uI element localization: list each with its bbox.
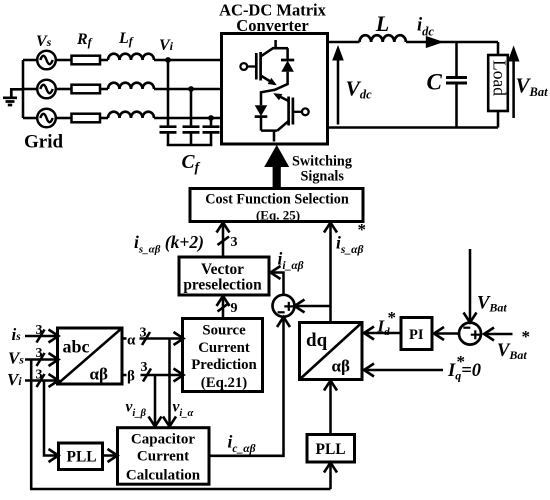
- wire bottom stub: [273, 131, 276, 142]
- switching signals arrow: [264, 145, 289, 188]
- svg-text:*: *: [388, 308, 397, 327]
- load box: [488, 55, 508, 111]
- wire converter to L: [328, 41, 360, 44]
- svg-text:(Eq.21): (Eq.21): [201, 375, 248, 391]
- wire grid bus: [22, 60, 25, 118]
- svg-text:Vs: Vs: [36, 33, 52, 50]
- svg-text:*: *: [358, 220, 367, 239]
- wire bus to source B: [23, 88, 37, 91]
- AC-DC matrix converter box: [222, 34, 328, 145]
- wire vector to cost: [217, 223, 230, 258]
- capacitor Cf phase A: [160, 60, 177, 145]
- wire Cf common bus: [167, 144, 213, 147]
- wire V_s down branch: [30, 360, 33, 490]
- node phase C junction: [208, 115, 214, 121]
- svg-text:ii_αβ: ii_αβ: [278, 249, 304, 273]
- resistor Rf phase A: [72, 56, 101, 65]
- wire bus to source C: [23, 117, 37, 120]
- wire input V_i: [25, 374, 59, 387]
- wire PLL to capacitor block: [103, 449, 118, 462]
- label Cost Function Selection (Eq. 25): [205, 192, 349, 223]
- wire v_i_alpha branch: [163, 339, 176, 427]
- source current prediction box: [183, 319, 263, 392]
- svg-text:β: β: [127, 369, 135, 385]
- svg-text:3: 3: [36, 346, 43, 361]
- IGBT Q2 gate terminal: [293, 108, 309, 115]
- ground: [3, 89, 23, 105]
- wire L to load node: [406, 41, 498, 44]
- svg-text:Vdc: Vdc: [346, 77, 373, 102]
- inductor Lf phase B: [108, 83, 154, 89]
- IGBT Q2: [276, 95, 293, 131]
- svg-text:is: is: [12, 325, 22, 344]
- wire Rf to Lf phase B: [100, 88, 108, 91]
- svg-text:Source: Source: [202, 323, 246, 339]
- svg-text:L: L: [375, 11, 389, 36]
- label Source Current Prediction: [191, 323, 256, 392]
- wire bus up to PLL2: [324, 463, 337, 490]
- svg-text:3: 3: [140, 326, 147, 341]
- svg-text:VBat: VBat: [516, 74, 549, 100]
- svg-text:vi_β: vi_β: [126, 399, 147, 420]
- wire I_q ref to dq: [364, 364, 443, 377]
- svg-text:is_αβ (k+2): is_αβ (k+2): [134, 232, 204, 256]
- svg-text:Converter: Converter: [236, 16, 308, 35]
- svg-text:3: 3: [231, 235, 238, 250]
- wire common emitter link: [261, 90, 275, 106]
- svg-text:Lf: Lf: [118, 30, 134, 48]
- capacitor current calculation box: [118, 428, 210, 485]
- wire Lf to converter phase A: [154, 59, 222, 62]
- svg-text:(Eq. 25): (Eq. 25): [256, 208, 300, 223]
- capacitor Cf phase C: [203, 118, 220, 145]
- node Vi phase A junction: [165, 57, 171, 63]
- AC source Vs phase A: [37, 51, 56, 70]
- IGBT Q1 emitter arrow: [268, 78, 279, 89]
- wire bus to source A: [23, 59, 37, 62]
- svg-text:Capacitor: Capacitor: [131, 432, 195, 448]
- inductor Lf phase A: [108, 54, 154, 60]
- cost function selection box: [190, 189, 363, 222]
- svg-text:Current: Current: [137, 449, 189, 465]
- summing node S2: [459, 323, 481, 345]
- svg-text:3: 3: [141, 360, 148, 375]
- svg-text:dq: dq: [306, 330, 328, 351]
- svg-text:Vector: Vector: [201, 261, 244, 278]
- wire top stub: [274, 40, 277, 48]
- svg-text:α: α: [127, 333, 136, 349]
- wire V_Bat ref to S2: [484, 328, 513, 341]
- svg-text:Signals: Signals: [301, 169, 345, 185]
- summing node S1: [273, 295, 295, 317]
- svg-text:αβ: αβ: [332, 357, 350, 376]
- inductor Lf phase C: [108, 112, 154, 118]
- svg-text:C: C: [427, 70, 443, 95]
- arrow V_dc: [332, 45, 344, 125]
- AC source Vs phase B: [37, 80, 56, 99]
- wire v_i_beta branch: [149, 375, 162, 427]
- IGBT Q2 emitter arrow: [272, 90, 283, 100]
- wire bottom rail of switch: [261, 129, 277, 132]
- svg-text:*: *: [522, 327, 531, 346]
- resistor Rf phase B: [72, 85, 101, 94]
- arrow i_dc: [426, 36, 444, 48]
- wire source to vector: [217, 296, 230, 318]
- wire node to load top: [497, 42, 500, 55]
- svg-text:Switching: Switching: [292, 154, 352, 170]
- svg-text:Grid: Grid: [24, 132, 63, 153]
- resistor Rf phase C: [72, 114, 101, 123]
- PLL block right: [307, 435, 355, 463]
- capacitor C: [446, 42, 467, 128]
- capacitor Cf phase B: [183, 89, 200, 145]
- IGBT Q1 gate terminal: [240, 63, 256, 70]
- wire branch to S1 plus input: [295, 300, 331, 313]
- svg-text:Calculation: Calculation: [126, 468, 201, 484]
- wire i_c_ab to S1: [209, 317, 290, 456]
- svg-text:Vi: Vi: [7, 370, 22, 389]
- slash 9 on source-vector wire: [218, 303, 230, 312]
- wire PI to dq I_d ref: [364, 327, 401, 340]
- vector preselection box: [179, 257, 269, 295]
- wire top rail of switch: [272, 47, 288, 50]
- inductor L: [360, 35, 406, 42]
- wire Lf to converter phase C: [154, 117, 222, 120]
- wire bottom feedback bus: [30, 488, 331, 491]
- wire i_i_ab to vector preselection: [271, 266, 284, 295]
- AC source Vs phase C: [37, 109, 56, 128]
- svg-text:Cost Function Selection: Cost Function Selection: [205, 192, 349, 208]
- svg-text:*: *: [457, 352, 466, 371]
- wire beta output: [122, 369, 184, 382]
- label Switching Signals: [292, 154, 352, 185]
- svg-text:Cf: Cf: [182, 152, 201, 176]
- wire source A to Rf: [56, 59, 72, 62]
- wire Lf to converter phase B: [154, 88, 222, 91]
- wire source C to Rf: [56, 117, 72, 120]
- PLL block left: [59, 443, 103, 470]
- wire Rf to Lf phase C: [100, 117, 108, 120]
- svg-text:Prediction: Prediction: [191, 357, 256, 373]
- diode D2: [255, 105, 268, 130]
- svg-text:Vs: Vs: [8, 349, 24, 368]
- svg-text:PLL: PLL: [67, 449, 97, 466]
- wire input i_s: [25, 330, 59, 343]
- wire load bottom: [497, 111, 500, 128]
- wire i_s_ab_ref dq to cost: [324, 223, 337, 323]
- wire converter bottom rail: [328, 126, 499, 129]
- PI block: [401, 318, 432, 350]
- block dq-ab: [300, 323, 363, 380]
- wire input V_s: [25, 353, 59, 366]
- svg-text:VBat: VBat: [477, 294, 507, 315]
- svg-text:Load: Load: [490, 60, 510, 96]
- wire V_Bat to S2: [464, 249, 477, 323]
- svg-text:vi_α: vi_α: [173, 399, 194, 420]
- svg-text:PLL: PLL: [316, 441, 346, 458]
- svg-text:Rf: Rf: [76, 31, 93, 49]
- svg-text:Vi: Vi: [159, 37, 174, 54]
- svg-text:αβ: αβ: [90, 365, 108, 384]
- svg-text:idc: idc: [417, 16, 434, 39]
- label AC-DC Matrix Converter: [219, 1, 327, 36]
- wire source B to Rf: [56, 88, 72, 91]
- wire Rf to Lf phase A: [100, 59, 108, 62]
- svg-text:9: 9: [231, 301, 238, 316]
- node phase B junction: [188, 86, 194, 92]
- wire PLL2 to dq block: [324, 381, 337, 435]
- arrow V_Bat: [508, 46, 520, 119]
- wire S2 to PI: [434, 327, 459, 340]
- svg-text:3: 3: [36, 323, 43, 338]
- svg-text:abc: abc: [63, 337, 90, 357]
- svg-text:PI: PI: [409, 327, 424, 343]
- wire alpha output: [122, 332, 184, 345]
- IGBT Q1: [256, 48, 274, 84]
- diode D1: [274, 48, 294, 90]
- svg-text:Current: Current: [198, 340, 250, 356]
- svg-text:3: 3: [36, 368, 43, 383]
- block abc-ab: [58, 328, 123, 384]
- svg-text:preselection: preselection: [183, 277, 262, 294]
- wire V_i to PLL: [44, 381, 59, 463]
- slash 3 on vector-cost wire: [218, 237, 230, 246]
- svg-text:ic_αβ: ic_αβ: [228, 432, 256, 456]
- label Capacitor Current Calculation: [126, 432, 201, 484]
- label Vector preselection: [183, 261, 262, 294]
